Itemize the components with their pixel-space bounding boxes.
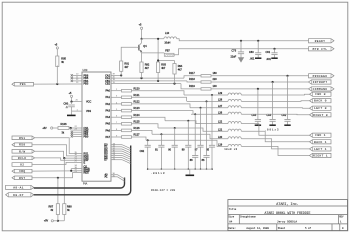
wire RS1 to pin [35, 138, 82, 154]
wire CB1 row jog to R118 [187, 81, 201, 82]
inductor L19 [228, 144, 241, 146]
input flag BACK 0 [310, 99, 332, 103]
IC pin D3 stub and bus entry pin 30 [111, 150, 122, 152]
svg-text:VCC: VCC [86, 101, 91, 104]
IC pin D7 stub and bus entry pin 26 [111, 159, 122, 161]
input flag O2 phase 2 clock [12, 163, 32, 167]
capacitor C89 bypass [187, 120, 189, 122]
power +5 above R95 [56, 49, 58, 56]
IC pin PA4 stub [111, 116, 122, 118]
svg-text:100: 100 [213, 85, 218, 88]
svg-text:L21: L21 [218, 128, 223, 131]
IC pin A1 stub and bus entry [111, 176, 118, 178]
svg-text:MTR CTL: MTR CTL [313, 48, 328, 51]
input flag R/W [12, 150, 35, 154]
svg-text:L29: L29 [218, 92, 223, 95]
inductor L27 [228, 106, 241, 108]
svg-text:R121: R121 [134, 94, 141, 97]
wire PA4 step to filter row [132, 117, 166, 121]
output flag PROCEED [309, 74, 335, 78]
no-connect stubs PB2 PB1 PB0 [73, 131, 82, 133]
wire RCLK to pin [35, 158, 82, 160]
wire R91 to Q4 base [121, 47, 137, 61]
input flag FWD 0 [310, 92, 332, 96]
capacitor C92 bypass [147, 139, 149, 141]
filter row6 wire to L21 [158, 128, 228, 131]
wire R106 node to CS2 [70, 128, 72, 130]
input flag RIGHT 0 [310, 113, 332, 117]
resistor R95 pullup [56, 66, 58, 85]
svg-text:R126: R126 [134, 127, 141, 130]
svg-text:RIGHT 1: RIGHT 1 [313, 154, 328, 157]
wire R118 to INTRUPT flag [211, 81, 309, 83]
input flag RS0 [12, 143, 32, 147]
data bus thick line [34, 146, 131, 195]
svg-text:PA2: PA2 [105, 103, 110, 106]
output flag READY [309, 39, 335, 43]
svg-text:PA6: PA6 [105, 129, 110, 132]
svg-text:C84: C84 [252, 114, 257, 117]
wire O2 to pin [32, 162, 82, 164]
IC pin D4 stub and bus entry pin 29 [111, 152, 122, 154]
input flag PB1 [12, 82, 34, 86]
input flag FWD 1 [310, 133, 332, 137]
svg-text:RS1: RS1 [19, 137, 25, 140]
svg-text:PA3: PA3 [105, 110, 110, 113]
node R88 pullup tap [63, 157, 65, 159]
svg-text:A0-A1: A0-A1 [13, 186, 24, 189]
resistor R123 [122, 109, 132, 112]
input flag BACK 1 [310, 140, 332, 144]
svg-text:ATARI, Inc.: ATARI, Inc. [276, 203, 298, 207]
svg-text:PA5: PA5 [105, 123, 110, 126]
resistor R92 pullup CA1 [140, 77, 142, 79]
wire L19 to RIGHT 1 flag [241, 146, 309, 155]
svg-text:PA7: PA7 [105, 136, 110, 139]
svg-text:Date:: Date: [228, 227, 236, 230]
inductor L21 [228, 129, 241, 131]
svg-text:5 of: 5 of [305, 227, 312, 230]
transistor Q4 [138, 45, 140, 51]
svg-text:LEFT 1: LEFT 1 [314, 148, 327, 151]
capacitor C82 filter on PROCEED [286, 75, 288, 77]
wire PA6 step to filter row [132, 130, 153, 134]
svg-text:L28: L28 [218, 99, 223, 102]
svg-text:.001x8: .001x8 [151, 172, 166, 175]
svg-text:R/W: R/W [19, 149, 25, 153]
resistor R120 [122, 89, 132, 92]
capacitor C88 bypass [194, 113, 196, 115]
IC pin PA0 stub [111, 90, 122, 92]
wire L20 to LEFT 1 flag [241, 139, 309, 149]
wire R119 to COMMAND flag [211, 88, 309, 90]
input flag RST [12, 176, 32, 180]
IC pin D5 stub and bus entry pin 28 [111, 154, 122, 156]
resistor R94 pullup CB2 [173, 83, 175, 85]
capacitor C83 filter on INTRUPT [272, 81, 274, 83]
resistor R124 [122, 116, 132, 119]
IC pin PA5 stub [111, 123, 122, 125]
inductor L10 [164, 37, 177, 39]
wire CA1 row jog to R117 [184, 76, 201, 78]
address bus thick line [34, 178, 125, 189]
svg-text:PIA: PIA [83, 182, 87, 186]
svg-text:PB3: PB3 [84, 83, 89, 86]
filter row FWD0 wire [184, 94, 228, 96]
capacitor C81 on MTR CTL line [273, 48, 275, 50]
title block size row [228, 223, 348, 225]
svg-text:D0-D7: D0-D7 [13, 194, 24, 197]
svg-text:R106: R106 [61, 123, 68, 126]
ground below VSS [67, 114, 76, 116]
resistor R117 [201, 75, 211, 77]
svg-text:PROCEED: PROCEED [313, 75, 328, 78]
resistor R88 pullup [63, 158, 65, 204]
svg-text:4k7: 4k7 [124, 66, 129, 69]
svg-text:R119: R119 [189, 85, 195, 88]
svg-text:4k7: 4k7 [161, 67, 166, 70]
filter row8 wire to L19 [146, 140, 228, 146]
svg-text:FWD 1: FWD 1 [315, 134, 326, 137]
svg-text:RST: RST [19, 177, 25, 180]
svg-text:A4: A4 [229, 221, 233, 224]
svg-text:C80: C80 [249, 51, 254, 54]
title block company row [228, 205, 348, 207]
wire +5 node down to R93 R94 rail [157, 39, 159, 62]
svg-text:PA4: PA4 [105, 116, 110, 119]
svg-text:R87: R87 [49, 205, 54, 208]
IC pin CB1 stub and row [111, 80, 187, 82]
input flag LEFT 0 [310, 106, 332, 110]
svg-text:R117: R117 [189, 72, 195, 75]
output flag COMMAND [309, 87, 335, 91]
svg-text:+5V: +5V [44, 220, 49, 223]
svg-text:R88: R88 [67, 205, 72, 208]
IC pin CA2 stub [111, 74, 121, 76]
capacitor C85 bypass [211, 94, 213, 96]
svg-text:FWD 0: FWD 0 [315, 93, 326, 96]
svg-text:C83: C83 [267, 114, 272, 117]
svg-text:220: 220 [213, 78, 218, 81]
svg-text:Title: Title [229, 208, 237, 211]
IC pin VSS 1 stub and ground [72, 110, 83, 112]
svg-text:+5V: +5V [42, 127, 47, 130]
title block outer box [228, 200, 348, 231]
wire RST to RES pin [32, 173, 82, 178]
IC pin CB2 stub and row [111, 83, 181, 85]
IC pin A0 stub and bus entry [111, 174, 118, 176]
svg-text:PB0: PB0 [84, 135, 89, 138]
bus flag A0-A1 [6, 185, 34, 189]
wire PA3 step to filter row [132, 111, 194, 115]
svg-text:Size: Size [228, 216, 234, 219]
svg-text:10uH x8: 10uH x8 [224, 148, 237, 151]
IC CS pin stubs [73, 127, 82, 129]
resistor R93 pullup CB1 [157, 80, 159, 82]
node junction R95 to PB line [56, 83, 58, 85]
wire FB7 to MTR CTL row [174, 49, 309, 55]
ground below C81 [271, 57, 277, 59]
svg-text:R120-127 = 220: R120-127 = 220 [151, 189, 175, 192]
resistor R125 [122, 123, 132, 126]
IC pin PA3 stub [111, 110, 122, 112]
wire R117 to PROCEED flag [211, 75, 309, 77]
svg-text:4k7: 4k7 [178, 68, 183, 71]
filter row LEFT0 wire [190, 107, 228, 109]
ground symbol on rail [189, 169, 191, 174]
IC pin PA6 stub [111, 129, 122, 131]
svg-text:REV: REV [339, 216, 344, 219]
wire L10 to READY row [177, 39, 309, 41]
resistor R122 [122, 103, 132, 106]
svg-text:L26: L26 [218, 111, 223, 114]
IC pin PB3 stub [73, 83, 82, 85]
svg-text:RES: RES [84, 172, 89, 175]
resistor R119 [201, 88, 211, 90]
title block title row [228, 214, 348, 216]
capacitor C80 on READY line [257, 40, 259, 42]
resistor R127 [122, 136, 132, 139]
wire L27 to LEFT 0 flag [241, 107, 309, 109]
svg-text:BACK 0: BACK 0 [314, 100, 327, 103]
svg-text:Jerzy SOBOLA: Jerzy SOBOLA [277, 221, 297, 224]
svg-text:.001x3: .001x3 [265, 128, 280, 131]
resistor R121 [122, 96, 132, 99]
output flag INTRUPT [309, 80, 332, 84]
IC pin D6 stub and bus entry pin 27 [111, 157, 122, 159]
input flag LEFT 1 [310, 147, 332, 151]
svg-text:10uH: 10uH [164, 41, 170, 44]
ferrite bead FB7 [164, 53, 174, 56]
svg-text:R127: R127 [134, 134, 141, 137]
svg-text:PA0: PA0 [105, 90, 110, 93]
svg-text:READY: READY [315, 40, 326, 43]
capacitor C91 bypass [160, 133, 162, 135]
capacitor C87 bypass [200, 107, 202, 109]
svg-text:Draughtsman: Draughtsman [240, 216, 256, 219]
capacitor C86 bypass [206, 100, 208, 102]
wire emitter row to FB7 [141, 51, 143, 54]
svg-text:L27: L27 [218, 105, 223, 108]
svg-text:C73: C73 [232, 50, 237, 53]
svg-text:R123: R123 [134, 107, 141, 110]
svg-text:L22: L22 [218, 121, 223, 124]
inductor L26 [228, 112, 241, 114]
svg-text:L19: L19 [218, 144, 223, 147]
power +5 above Q4 [141, 27, 143, 29]
wire RS0 to pin [32, 145, 82, 156]
bus flag D0-D7 [6, 193, 34, 197]
svg-text:R120: R120 [134, 87, 141, 90]
input flag RS1 [12, 136, 35, 140]
ground arrow below C73 [240, 54, 242, 58]
rail R93 R94 tops [158, 60, 174, 62]
capacitor C90 bypass [174, 127, 176, 129]
IC pin D2 stub and bus entry pin 31 [111, 148, 122, 150]
ground rail for bypass caps [148, 168, 212, 170]
svg-text:PA1: PA1 [105, 96, 110, 99]
power +5 to VCC pin 20 [71, 98, 73, 102]
svg-text:COMMAND: COMMAND [313, 88, 328, 91]
wire PA2 step to filter row [132, 104, 191, 108]
IC pin CA1 stub and row [111, 77, 184, 79]
svg-text:R125: R125 [134, 120, 141, 123]
filter row7 wire to L20 [152, 134, 228, 139]
wire L26 to RIGHT 0 flag [241, 113, 309, 116]
input flag RCLK [12, 156, 35, 160]
wire R/W to pin [35, 151, 82, 158]
svg-text:BACK 1: BACK 1 [314, 141, 327, 144]
svg-text:INTRUPT: INTRUPT [313, 81, 328, 84]
input flag IRQ [12, 169, 32, 173]
svg-text:ATARI 800XL WITH FREDDIE: ATARI 800XL WITH FREDDIE [265, 211, 311, 215]
svg-text:L20: L20 [218, 136, 223, 139]
svg-text:C82: C82 [282, 114, 287, 117]
resistor R106 from +5V to CS pins [51, 127, 53, 129]
power +5V feeding R87 R88 [58, 220, 64, 222]
svg-text:RS0: RS0 [19, 144, 25, 147]
svg-text:4k7: 4k7 [145, 67, 150, 70]
svg-text:RIGHT 0: RIGHT 0 [313, 114, 328, 117]
wire L28 to BACK 0 flag [241, 100, 309, 103]
svg-text:R118: R118 [189, 78, 195, 81]
IC pin PA2 stub [111, 103, 122, 105]
wire PA7 step to filter row [132, 137, 147, 140]
svg-text:.001: .001 [266, 58, 271, 61]
IC U23 left top pin stubs PB6 PB5 PB4 no-connect [73, 74, 82, 76]
svg-text:VSS: VSS [86, 110, 91, 113]
svg-text:CB2: CB2 [105, 83, 110, 86]
ground below C80 [257, 55, 259, 58]
svg-text:L10: L10 [165, 32, 170, 35]
filter row RIGHT0 wire [191, 113, 228, 115]
wire PA0 step to filter row [132, 91, 185, 95]
svg-text:PB1: PB1 [20, 83, 26, 86]
capacitor C84 filter on COMMAND [257, 88, 259, 90]
resistor R126 [122, 129, 132, 132]
svg-text:R124: R124 [134, 114, 141, 117]
inductor L29 [228, 93, 241, 95]
output flag MTR CTL [309, 47, 335, 51]
resistor R118 [201, 81, 211, 83]
wire L22 to FWD 1 flag [241, 124, 309, 136]
wire +5 row to L10 [142, 38, 164, 40]
wire PB1 flag line to PB3 [34, 83, 74, 85]
filter row BACK0 wire [187, 100, 228, 102]
resistor R91 base pullup [120, 74, 122, 76]
input flag RIGHT 1 [310, 153, 332, 157]
IC pin D0 stub and bus entry pin 33 [111, 144, 122, 146]
svg-text:IRQ: IRQ [19, 170, 25, 173]
node R87 tap on RST line [57, 177, 59, 179]
svg-text:August 14, 2000: August 14, 2000 [246, 227, 269, 230]
svg-text:FB7: FB7 [165, 50, 170, 53]
title block date row [276, 224, 278, 231]
IC pin D1 stub and bus entry pin 32 [111, 146, 122, 148]
svg-text:R122: R122 [134, 101, 141, 104]
capacitor C73 electrolytic on READY line [240, 40, 242, 42]
wire PA5 step to filter row [132, 124, 159, 128]
wire IRQ to IRQA IRQB pins [32, 170, 82, 172]
wire L21 to BACK 1 flag [241, 131, 309, 142]
resistor R87 pullup on RST [57, 178, 59, 204]
inductor L28 [228, 99, 241, 101]
op IC U23 PIA 6520 body [82, 72, 111, 181]
wire L29 to FWD 0 flag [241, 93, 309, 96]
svg-text:O2: O2 [20, 163, 24, 166]
IC pin PA7 stub [111, 136, 122, 138]
svg-text:.001: .001 [250, 58, 255, 61]
inductor L20 [228, 137, 241, 139]
inductor L22 [228, 122, 241, 124]
svg-text:Q4: Q4 [143, 45, 147, 48]
node +5 collector L10 [141, 38, 143, 40]
IC pin PA1 stub [111, 96, 122, 98]
capacitor C60 decoupling [71, 102, 73, 104]
svg-text:Sheet: Sheet [278, 227, 286, 230]
svg-text:RCLK: RCLK [18, 157, 27, 160]
svg-text:LEFT 0: LEFT 0 [314, 107, 327, 110]
svg-text:180: 180 [213, 72, 218, 75]
svg-text:22uF: 22uF [231, 56, 237, 59]
filter row5 wire to L22 [165, 121, 228, 124]
svg-text:C92: C92 [140, 150, 145, 153]
svg-text:U23: U23 [83, 68, 88, 72]
wire CB2 row jog to R119 [181, 84, 201, 89]
svg-text:C81: C81 [266, 51, 271, 54]
wire PA1 step to filter row [132, 97, 187, 101]
